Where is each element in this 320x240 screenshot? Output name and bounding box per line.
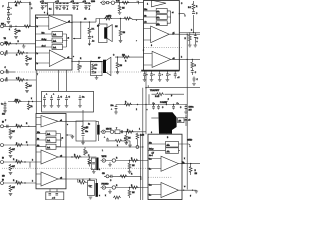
wire — [195, 189, 197, 192]
jack J13 — [102, 159, 105, 162]
ground — [25, 63, 29, 65]
svg-text:+ C2: + C2 — [55, 1, 59, 3]
node junction — [26, 52, 27, 53]
node junction — [179, 13, 180, 14]
wire stby feedback — [73, 22, 81, 38]
wire output U2B — [58, 156, 66, 158]
ground — [92, 172, 96, 174]
svg-text:.1: .1 — [89, 9, 91, 11]
svg-text:o2: o2 — [60, 156, 62, 158]
svg-text:+: + — [162, 74, 163, 76]
ground — [114, 112, 118, 114]
svg-text:GND: GND — [188, 140, 193, 142]
svg-text:MD IN: MD IN — [106, 128, 112, 130]
svg-text:k: k — [181, 57, 182, 59]
svg-text:u: u — [99, 169, 100, 171]
svg-text:k: k — [191, 30, 192, 32]
op-amp U1A — [49, 16, 67, 30]
resistor R45 shunt mid — [136, 133, 139, 140]
wire drop to U3 pin — [132, 18, 144, 21]
capacitor C18 — [65, 95, 69, 108]
wire top rail to caps — [40, 2, 90, 4]
node junction — [187, 59, 188, 60]
svg-text:k: k — [117, 145, 118, 147]
wire jog — [78, 179, 88, 183]
svg-text:in: in — [37, 26, 38, 28]
jack J4b input — [1, 79, 4, 82]
svg-text:R2: R2 — [86, 127, 88, 129]
svg-text:2k2: 2k2 — [122, 54, 125, 56]
box zobel Z4 — [91, 158, 96, 170]
wire — [28, 102, 30, 104]
node junction — [15, 26, 16, 27]
jack J4 input — [1, 71, 4, 74]
capacitor C25 cluster — [106, 138, 109, 141]
wire channel-separator dotted line bottom right — [149, 176, 172, 178]
svg-text:4R: 4R — [178, 121, 181, 123]
resistor R27 shunt — [118, 5, 121, 12]
svg-text:k: k — [32, 181, 33, 183]
capacitor C31 under U3 — [143, 71, 147, 82]
block stby switch 2 — [52, 38, 63, 43]
wire sense stub — [165, 102, 168, 105]
resistor R19 shunt — [119, 30, 122, 37]
jack J10 aux top — [111, 1, 114, 4]
label box Q1 — [178, 118, 185, 123]
capacitor CE1 output electrolytic — [97, 125, 99, 135]
ground — [188, 45, 192, 47]
capacitor C11b — [88, 3, 91, 8]
thick bottom edge U3 — [141, 70, 179, 72]
resistor R18 — [104, 17, 112, 20]
op-amp IC U2 package box — [36, 114, 66, 189]
ground — [7, 21, 11, 23]
capacitor C41 — [90, 186, 93, 188]
ground — [9, 193, 13, 195]
box B3 bottom caps appendix — [46, 192, 64, 200]
svg-text:+: + — [154, 74, 155, 76]
wire blob top rail — [146, 94, 187, 104]
capacitor C11 decoupling — [84, 3, 88, 10]
svg-text:1: 1 — [81, 66, 82, 68]
svg-text:1u: 1u — [86, 131, 88, 133]
svg-text:C+: C+ — [1, 104, 3, 106]
wire — [117, 57, 119, 71]
svg-text:C 2: C 2 — [95, 65, 98, 67]
svg-text:k: k — [184, 158, 185, 160]
wire output5 run — [66, 179, 97, 183]
ground — [89, 197, 93, 199]
wire input stubs U3C — [144, 54, 153, 66]
ground jack2 — [108, 192, 112, 194]
node output pin dot — [71, 22, 72, 23]
node junction — [126, 131, 127, 132]
wire — [193, 1, 195, 33]
resistor R11 shunt — [9, 147, 12, 154]
wire output1 run — [72, 21, 96, 23]
node junction — [166, 104, 167, 105]
block matching — [115, 130, 120, 134]
jack J8 input — [1, 182, 4, 185]
node junction — [24, 182, 25, 183]
capacitor C3 — [6, 52, 7, 55]
wire mute arrow into U2 — [66, 135, 72, 136]
svg-text:o2: o2 — [173, 58, 175, 60]
svg-text:C+: C+ — [89, 163, 91, 165]
svg-text:St-by: St-by — [149, 148, 153, 151]
svg-text:R 0.5: R 0.5 — [155, 96, 159, 98]
capacitor C33 under U3 — [158, 71, 162, 82]
capacitor C7b — [44, 3, 47, 8]
node junction — [71, 156, 72, 157]
ground — [25, 90, 29, 92]
node junction — [120, 18, 121, 19]
wire input 2 — [4, 43, 36, 45]
svg-text:dc: dc — [37, 145, 39, 147]
svg-text:C+: C+ — [177, 103, 179, 105]
svg-text:o: o — [73, 56, 74, 58]
jack J18 — [136, 146, 139, 149]
resistor R35 shunt — [128, 163, 131, 170]
wire bus left pair — [139, 136, 141, 201]
box B2 supply caps — [42, 91, 94, 112]
svg-text:Mu: Mu — [149, 142, 152, 144]
ground — [128, 145, 132, 147]
svg-text:.1u: .1u — [92, 40, 95, 42]
wire — [120, 19, 122, 41]
capacitor C13 zobel — [88, 37, 91, 39]
svg-text:6: 6 — [151, 45, 152, 47]
node junction — [187, 34, 188, 35]
resistor R1 — [14, 1, 22, 4]
capacitor C4b — [6, 79, 7, 82]
wire corner down — [29, 3, 31, 27]
jack J2 input — [1, 42, 4, 45]
wire — [108, 140, 115, 142]
jack J9 aux top — [102, 1, 105, 4]
resistor R38 shunt — [128, 190, 131, 197]
svg-text:dc: dc — [144, 22, 146, 24]
resistor R28 — [122, 56, 130, 59]
svg-text:1k: 1k — [31, 106, 33, 108]
capacitor C4 — [7, 71, 8, 74]
node junction — [117, 56, 118, 57]
wire blob to bus — [184, 119, 187, 121]
wire U1-U2 link vertical — [35, 70, 37, 114]
svg-text:7: 7 — [37, 74, 38, 76]
node junction — [16, 43, 17, 44]
wire input 7 — [4, 161, 37, 163]
ground — [81, 142, 85, 144]
jack J14 — [112, 159, 115, 162]
resistor R3 — [4, 42, 12, 45]
svg-text:10u: 10u — [111, 105, 114, 107]
svg-text:5: 5 — [143, 50, 144, 52]
capacitor C6 — [7, 125, 8, 128]
wire — [78, 61, 80, 72]
capacitor C40 — [121, 130, 122, 133]
svg-text:R10: R10 — [15, 100, 18, 102]
node junction — [181, 163, 182, 164]
wire — [189, 33, 191, 45]
wire — [152, 93, 185, 95]
resistor R31 — [126, 130, 134, 133]
capacitor C28 — [194, 33, 197, 45]
wire — [191, 59, 193, 70]
resistor R33 — [115, 139, 123, 142]
svg-text:+: + — [11, 14, 12, 16]
capacitor C9 decoupling — [62, 3, 66, 10]
wire drops to B3 — [50, 189, 57, 192]
op-amp U2C — [41, 172, 58, 186]
node junction — [129, 187, 130, 188]
svg-text:.1: .1 — [59, 9, 61, 11]
svg-text:u: u — [44, 12, 45, 14]
node junction — [28, 101, 29, 102]
wire — [129, 161, 131, 172]
wire input stubs U2A — [36, 118, 41, 125]
ground — [125, 143, 129, 145]
capacitor C39 electrolytic right mid — [185, 115, 188, 126]
wire input stubs U2B — [36, 152, 41, 162]
svg-text:L: L — [102, 150, 103, 152]
svg-text:k: k — [105, 195, 106, 197]
resistor R2b series — [24, 25, 32, 28]
op-amp U2B — [41, 150, 58, 164]
wire into blob — [151, 117, 158, 119]
wire input stubs U4B — [148, 185, 161, 195]
wire input 4 — [4, 71, 16, 73]
svg-text:o: o — [67, 124, 68, 126]
wire corner — [123, 141, 131, 145]
resistor R17 zobel — [88, 27, 91, 34]
wire block links U4 — [148, 144, 182, 150]
resistor R22 — [92, 64, 95, 71]
wire block links — [36, 34, 68, 47]
capacitor C27 — [192, 12, 195, 14]
wire stub — [23, 44, 25, 46]
node junction — [183, 190, 184, 191]
op-amp U1B — [49, 50, 65, 67]
jack J12 phono — [110, 130, 113, 133]
wire U1B vertical drops — [58, 70, 66, 91]
ground — [119, 40, 123, 42]
wire output U3B — [169, 33, 200, 35]
wire corner under U3 — [146, 87, 200, 89]
svg-text:1: 1 — [139, 129, 140, 131]
wire — [88, 22, 90, 43]
svg-text:+: + — [104, 137, 105, 139]
wire channel-separator dotted line left — [15, 71, 141, 73]
wire input stubs U3B — [144, 29, 151, 41]
block dc switch 3 — [52, 45, 63, 50]
wire — [190, 164, 192, 175]
wire phono — [101, 131, 147, 133]
wire output2 run — [72, 60, 103, 62]
svg-text:u: u — [197, 41, 198, 43]
block dc switch U3 — [156, 21, 167, 26]
resistor R12 — [15, 144, 23, 147]
svg-text:2200: 2200 — [91, 1, 95, 3]
wire — [84, 147, 86, 149]
svg-text:4k7: 4k7 — [12, 187, 15, 189]
svg-text:.1: .1 — [95, 72, 97, 74]
resistor R24 series — [74, 156, 82, 159]
wire output4 run — [66, 156, 96, 158]
op-amp IC U4 package box — [148, 134, 182, 199]
node junction — [29, 2, 30, 3]
speaker SP2 — [103, 57, 111, 75]
svg-text:R1: R1 — [15, 5, 17, 7]
wire — [191, 72, 193, 75]
node junction — [129, 160, 130, 161]
wire output U2A — [58, 120, 66, 122]
ground — [195, 191, 199, 193]
resistor R29 shunt — [116, 62, 119, 69]
ground — [192, 84, 196, 86]
wire mid input feed — [115, 56, 144, 58]
resistor R7b shunt — [26, 82, 29, 89]
node junction — [28, 126, 29, 127]
resistor R40 top right — [192, 3, 195, 10]
resistor R26b hang — [84, 149, 87, 156]
svg-text:+ C1: + C1 — [40, 1, 44, 3]
wire long bottom rail — [56, 146, 143, 148]
svg-text:IN2: IN2 — [5, 42, 8, 44]
resistor R42 below out2 — [191, 62, 194, 69]
wire — [119, 3, 121, 13]
resistor R14 — [15, 161, 23, 164]
wire — [104, 176, 141, 180]
svg-text:1u: 1u — [88, 124, 90, 126]
block mute switch U3 — [156, 9, 167, 14]
resistor R15 shunt — [9, 185, 12, 192]
svg-text:dc d: dc d — [149, 155, 153, 157]
resistor R5 shunt — [26, 55, 29, 62]
svg-text:1: 1 — [83, 180, 84, 182]
node junction — [71, 61, 72, 62]
jack J16 — [102, 186, 105, 189]
resistor R9 shunt — [9, 129, 12, 136]
svg-text:R 1: R 1 — [92, 29, 95, 31]
block stby switch U2 — [46, 138, 56, 143]
capacitor C8b — [59, 3, 62, 8]
jack J5 input — [1, 125, 4, 128]
wire output U4A — [179, 163, 201, 165]
ground — [128, 171, 132, 173]
wire Vs into box — [53, 3, 55, 16]
wire — [101, 187, 149, 189]
capacitor C12 small — [29, 4, 31, 5]
resistor R10 — [15, 125, 23, 128]
ground — [71, 136, 75, 138]
svg-text:.1: .1 — [67, 9, 69, 11]
svg-text:+: + — [11, 8, 12, 10]
node junction — [26, 79, 27, 80]
svg-text:o3: o3 — [60, 178, 62, 180]
svg-text:2: 2 — [136, 109, 137, 111]
wire — [96, 121, 98, 141]
node junction — [32, 101, 33, 102]
wire output U1A — [67, 22, 72, 24]
ground — [9, 172, 13, 174]
capacitor CE2 output electrolytic — [96, 158, 98, 171]
node junction — [172, 34, 173, 35]
capacitor C1 electrolytic filter — [7, 3, 10, 18]
node junction — [153, 104, 154, 105]
capacitor C29 — [191, 71, 194, 73]
op-amp U2A — [41, 116, 58, 128]
wire stby right hook — [182, 144, 190, 147]
capacitor C7 decoupling — [41, 3, 45, 10]
node junction — [65, 121, 66, 122]
capacitor C24 — [115, 105, 118, 112]
svg-text:+C3: +C3 — [71, 1, 74, 3]
capacitor C32 under U3 — [150, 71, 154, 82]
capacitor C37 — [172, 105, 175, 110]
capacitor C2 — [10, 25, 11, 28]
pin hook — [137, 1, 139, 4]
svg-text:in: in — [37, 63, 38, 65]
resistor R41 — [188, 35, 191, 42]
svg-text:C+: C+ — [89, 186, 91, 188]
svg-text:k: k — [87, 152, 88, 154]
wire speaker feed — [100, 18, 133, 20]
wire — [136, 140, 138, 146]
wire — [88, 157, 90, 167]
svg-text:4k7: 4k7 — [29, 59, 32, 61]
resistor R30 — [124, 103, 132, 106]
wire block links U2 — [36, 134, 62, 147]
svg-text:in-: in- — [149, 195, 151, 197]
resistor R20 — [124, 17, 132, 20]
capacitor C5 electrolytic — [4, 102, 7, 111]
wire channel-separator dotted line right top — [144, 47, 182, 49]
node junction — [89, 156, 90, 157]
capacitor C35 under U3 — [174, 71, 177, 79]
speaker SP1 — [99, 19, 113, 43]
capacitor C10 decoupling — [72, 3, 76, 10]
svg-text:+: + — [147, 74, 148, 76]
svg-text:u: u — [99, 195, 100, 197]
wire input 5 — [4, 125, 37, 127]
wire output U3C — [171, 58, 200, 60]
svg-text:4k7: 4k7 — [29, 86, 32, 88]
capacitor C34 under U3 — [166, 71, 170, 82]
node junction — [145, 87, 146, 88]
ground — [22, 46, 26, 48]
wire input stubs U4A — [148, 159, 161, 169]
wire output3 drop — [66, 110, 83, 125]
ground — [9, 155, 13, 157]
transistor Q1 heatsink blob — [158, 112, 176, 134]
wire blob bottom — [166, 133, 172, 136]
node junction — [119, 2, 120, 3]
svg-text:.1: .1 — [77, 9, 79, 11]
svg-text:4.7: 4.7 — [152, 153, 155, 155]
wire — [93, 170, 95, 172]
capacitor C9b — [66, 3, 69, 8]
jack J11 phono — [102, 130, 105, 133]
capacitor C17 — [57, 95, 61, 108]
block stby switch U4 — [166, 148, 179, 154]
capacitor C14 — [92, 72, 95, 74]
svg-text:g: g — [190, 195, 191, 197]
jack J1 input — [1, 25, 4, 28]
wire drop to dotted — [29, 162, 31, 168]
capacitor C26 — [111, 175, 112, 178]
svg-text:k: k — [31, 98, 32, 100]
